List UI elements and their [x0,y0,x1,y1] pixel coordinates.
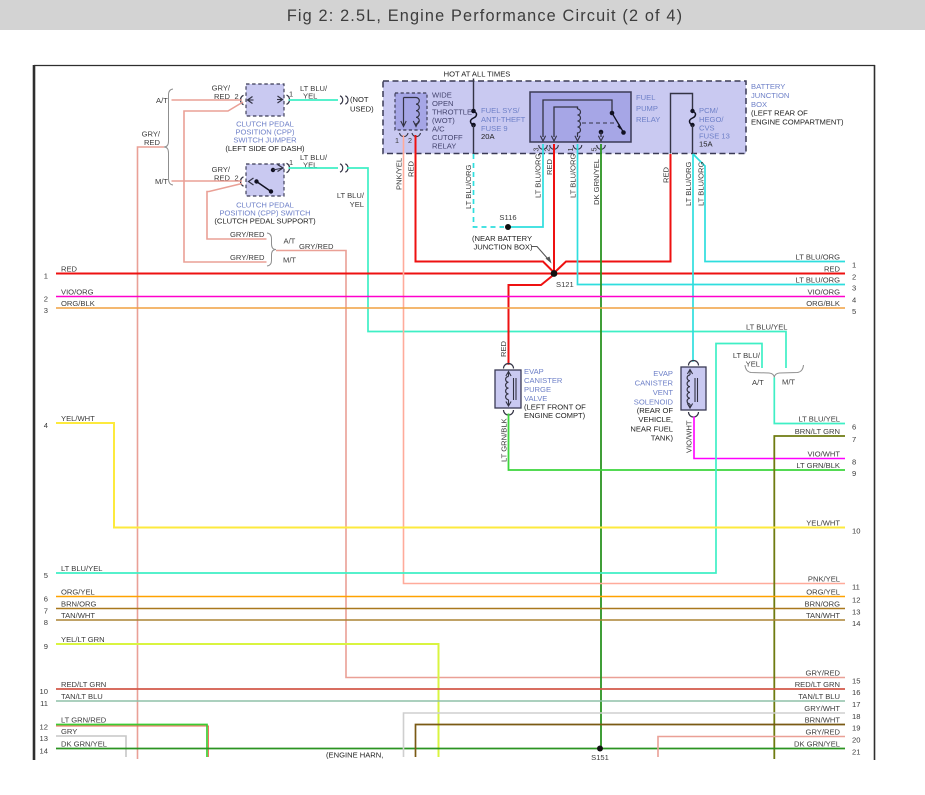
label fuse 13 [699,106,730,149]
svg-text:LT BLU/YEL: LT BLU/YEL [746,323,788,332]
svg-text:1: 1 [289,90,293,99]
wire BRN/LT GRN [774,436,845,759]
wire GRY/RED to right 15 [276,251,845,678]
solenoid EVAP canister purge valve [495,364,521,415]
wire RED to purge valve [509,275,555,365]
svg-text:NEAR FUEL: NEAR FUEL [630,425,673,434]
label right terminal 8 VIO/WHT [808,450,857,467]
svg-text:S121: S121 [556,280,574,289]
label left terminal 6 ORG/YEL [44,588,95,604]
label GRY/RED at jumper pin 2 [212,84,231,102]
svg-text:CANISTER: CANISTER [635,379,674,388]
wire TAN/LT BLU [56,700,845,702]
svg-text:RELAY: RELAY [636,115,660,124]
label right terminal 19 BRN/WHT [805,716,861,733]
label WOT relay [432,91,472,151]
svg-text:GRY/RED: GRY/RED [230,230,265,239]
wire RED main [56,273,845,275]
svg-text:15: 15 [852,676,860,685]
fuse F9 FUEL SYS/ANTI-THEFT FUSE 9 20A [471,109,477,154]
label left terminal 1 RED [44,265,78,281]
frame right border [874,65,876,760]
fuse F13 PCM/HEGO/CVS FUSE 13 15A [690,109,696,154]
svg-text:8: 8 [44,618,48,627]
svg-text:S116: S116 [499,213,516,222]
svg-text:LT GRN/RED: LT GRN/RED [61,716,107,725]
label (NEAR BATTERY JUNCTION BOX) with callout [472,234,552,264]
label right terminal 5 ORG/BLK [806,299,856,316]
svg-text:1: 1 [44,272,48,281]
wire VIO/WHT [694,417,845,459]
svg-text:11: 11 [40,699,48,708]
svg-text:18: 18 [852,712,860,721]
svg-text:A/T: A/T [156,96,168,105]
svg-text:11: 11 [852,582,860,591]
wire GRY/RED main feed [138,147,165,759]
svg-text:HOT AT ALL TIMES: HOT AT ALL TIMES [444,70,511,79]
svg-text:BRN/LT GRN: BRN/LT GRN [795,427,840,436]
wire GRY/RED A/T [172,99,243,101]
wire GRY/WHT [404,713,846,757]
svg-text:20A: 20A [481,132,495,141]
label left terminal 14 DK GRN/YEL [40,740,107,756]
svg-text:6: 6 [44,595,48,604]
svg-text:15A: 15A [699,140,713,149]
brace A/T M/T merge [745,365,804,378]
wire RED from WOT pin 2 [416,135,555,273]
label right terminal 11 PNK/YEL [808,575,860,592]
label CPP switch jumper [225,120,305,154]
svg-text:7: 7 [852,435,856,444]
svg-text:4: 4 [44,421,48,430]
wire RED/LT GRN [56,688,845,690]
svg-text:LT BLU/ORG: LT BLU/ORG [569,153,578,198]
svg-text:RED: RED [824,265,841,274]
svg-text:Fig 2: 2.5L, Engine Performanc: Fig 2: 2.5L, Engine Performance Circuit … [287,7,683,25]
pin 1 connector WOT [400,133,409,137]
wire LT BLU/ORG to right 1 [693,154,845,262]
label right terminal 14 TAN/WHT [806,611,860,628]
connector break (not used) [340,96,348,104]
svg-text:13: 13 [852,607,860,616]
svg-text:9: 9 [44,642,48,651]
connector CPP switch jumper box [246,84,284,116]
wire LT BLU/YEL left 5 [56,344,762,574]
svg-text:M/T: M/T [155,177,168,186]
svg-text:FUEL SYS/: FUEL SYS/ [481,106,520,115]
relay fuel pump relay box [530,92,631,142]
label right terminal 6 LT BLU/YEL [798,415,856,432]
svg-text:TAN/LT BLU: TAN/LT BLU [798,692,840,701]
node S121 [551,270,558,277]
label left terminal 8 TAN/WHT [44,611,96,627]
svg-text:GRY/RED: GRY/RED [230,253,265,262]
label right terminal 9 LT GRN/BLK [796,461,856,478]
label right terminal 10 YEL/WHT [806,519,860,536]
svg-text:9: 9 [852,469,856,478]
label right terminal 20 GRY/RED [806,728,861,745]
label right terminal 13 BRN/ORG [805,600,861,617]
label left terminal 10 RED/LT GRN [40,680,107,696]
svg-text:PNK/YEL: PNK/YEL [395,158,404,190]
svg-text:EVAP: EVAP [524,367,544,376]
svg-text:LT BLU/ORG: LT BLU/ORG [534,153,543,198]
svg-text:VENT: VENT [653,388,674,397]
relay pin arrows [540,136,603,141]
wire BRN/WHT [416,725,846,758]
svg-text:M/T: M/T [283,256,296,265]
svg-text:YEL: YEL [746,360,760,369]
svg-text:PURGE: PURGE [524,385,551,394]
svg-text:TAN/WHT: TAN/WHT [61,611,95,620]
label right terminal 15 GRY/RED [806,669,861,686]
svg-text:ENGINE COMPARTMENT): ENGINE COMPARTMENT) [751,118,844,127]
svg-text:3: 3 [44,306,48,315]
svg-text:LT BLU/ORG: LT BLU/ORG [796,276,841,285]
pin 2 connector CPP switch [241,177,244,186]
svg-text:13: 13 [40,734,48,743]
label right terminal 18 GRY/WHT [804,704,860,721]
pin 2 connector WOT [412,133,421,137]
label right terminal 21 DK GRN/YEL [794,740,860,757]
label fuse 9 [481,106,526,141]
svg-text:5: 5 [852,307,856,316]
svg-text:16: 16 [852,688,860,697]
svg-text:LT GRN/BLK: LT GRN/BLK [796,461,840,470]
svg-text:RED/LT GRN: RED/LT GRN [61,680,106,689]
svg-text:19: 19 [852,723,860,732]
wire DK GRN/YEL pin 5 [600,144,602,749]
svg-text:17: 17 [852,700,860,709]
label right terminal 4 VIO/ORG [808,288,857,305]
wire YEL/WHT [56,423,845,528]
svg-text:VIO/WHT: VIO/WHT [685,420,694,453]
svg-text:BRN/ORG: BRN/ORG [61,600,97,609]
svg-text:6: 6 [852,422,856,431]
svg-text:RED: RED [545,158,554,175]
wire LT BLU/YEL jumper output [289,99,339,101]
wire RED from relay pin 2 [553,144,555,274]
svg-text:BRN/WHT: BRN/WHT [805,716,841,725]
svg-text:1: 1 [852,260,856,269]
svg-text:BRN/ORG: BRN/ORG [805,600,841,609]
pin 1 connector jumper [287,95,290,104]
label right terminal 1 LT BLU/ORG [796,253,857,270]
svg-text:EVAP: EVAP [653,369,673,378]
svg-text:LT BLU/YEL: LT BLU/YEL [798,415,840,424]
solenoid EVAP canister vent solenoid [681,361,706,418]
label LT BLU/YEL at jumper pin 1 [300,84,328,101]
label (NOT USED) [350,95,374,114]
wire GRY/RED jumper down [184,102,267,262]
svg-text:VEHICLE,: VEHICLE, [638,415,673,424]
label battery junction box [751,82,844,127]
label right terminal 2 RED [824,265,856,282]
wire GRY/RED right 20 [658,737,845,758]
label left terminal 12 LT GRN/RED [40,716,107,732]
svg-text:TAN/WHT: TAN/WHT [806,611,840,620]
label GRY/RED at CPP switch pin 2 [212,165,231,183]
frame left border [33,65,36,760]
brace A/T M/T left [164,89,173,185]
svg-text:GRY: GRY [61,727,77,736]
svg-text:ANTI-THEFT: ANTI-THEFT [481,115,526,124]
svg-text:GRY/RED: GRY/RED [806,669,841,678]
label left terminal 5 LT BLU/YEL [44,564,103,580]
svg-text:7: 7 [44,607,48,616]
svg-text:3: 3 [852,283,856,292]
label right terminal 16 RED/LT GRN [795,680,861,697]
svg-text:14: 14 [852,619,860,628]
relay pin connectors [539,145,606,149]
svg-text:CANISTER: CANISTER [524,376,563,385]
svg-text:3: 3 [532,148,541,152]
wire TAN/WHT [56,619,845,621]
wire LT BLU/YEL CPP switch output [289,167,339,169]
wire LT GRN/RED [56,725,207,758]
svg-text:GRY/RED: GRY/RED [806,728,841,737]
wire ORG/BLK [56,307,845,309]
wire LT GRN/RED stripe [56,726,209,757]
relay pin numbers 3 2 1 5 [532,148,599,152]
svg-text:RED: RED [499,340,508,357]
svg-text:PUMP: PUMP [636,104,658,113]
wire BRN/ORG [56,608,845,610]
svg-text:M/T: M/T [782,378,795,387]
svg-text:TANK): TANK) [651,434,674,443]
svg-text:DK GRN/YEL: DK GRN/YEL [794,740,840,749]
svg-text:JUNCTION: JUNCTION [751,91,789,100]
label left terminal 3 ORG/BLK [44,299,95,315]
svg-text:RED: RED [144,138,161,147]
svg-text:(NOT: (NOT [350,95,369,104]
wire GRY/RED M/T [172,180,243,182]
svg-text:A/T: A/T [284,237,296,246]
label right terminal 3 LT BLU/ORG [796,276,857,293]
svg-text:LT GRN/BLK: LT GRN/BLK [500,418,509,462]
label left terminal 9 YEL/LT GRN [44,635,105,651]
svg-text:DK GRN/YEL: DK GRN/YEL [592,159,601,205]
wire PNK/YEL [404,135,846,584]
wire LT BLU/ORG pin 1 [578,144,846,285]
svg-text:(CLUTCH PEDAL SUPPORT): (CLUTCH PEDAL SUPPORT) [214,217,316,226]
svg-text:8: 8 [852,457,856,466]
wire RED from fuse 13 [555,154,671,273]
label LT BLU/YEL A/T branch [733,351,761,369]
svg-text:GRY/RED: GRY/RED [299,242,334,251]
svg-text:21: 21 [852,747,860,756]
svg-text:GRY/WHT: GRY/WHT [804,704,840,713]
svg-text:TAN/LT BLU: TAN/LT BLU [61,692,103,701]
battery junction box [383,81,746,154]
svg-text:1: 1 [395,136,399,145]
svg-text:5: 5 [44,571,48,580]
svg-text:2: 2 [408,136,412,145]
svg-text:2: 2 [852,272,856,281]
node S151 [597,746,603,752]
label fuel pump relay [636,93,660,124]
relay WOT A/C cutoff relay (inner box) [395,93,427,130]
svg-text:ENGINE COMPT): ENGINE COMPT) [524,411,586,420]
wire ORG/YEL [56,596,845,598]
wire DK GRN/YEL bottom [56,748,845,750]
svg-text:RED: RED [407,160,416,177]
wire LT BLU/ORG pin 3 [508,144,543,227]
brace GRY/RED merge [267,233,276,266]
svg-text:(REAR OF: (REAR OF [637,406,674,415]
svg-text:(ENGINE HARN,: (ENGINE HARN, [326,751,383,760]
svg-text:YEL: YEL [350,200,364,209]
svg-text:DK GRN/YEL: DK GRN/YEL [61,740,107,749]
svg-text:LT BLU/YEL: LT BLU/YEL [61,564,103,573]
svg-text:(LEFT REAR OF: (LEFT REAR OF [751,109,808,118]
svg-text:RELAY: RELAY [432,142,456,151]
wire LT BLU/ORG to vent solenoid [692,154,694,362]
label left terminal 13 GRY [40,727,78,743]
svg-text:12: 12 [40,723,48,732]
svg-text:LT BLU/: LT BLU/ [337,191,365,200]
wire LT BLU/YEL down-over [347,168,786,368]
svg-text:5: 5 [590,148,599,152]
switch CPP switch box [246,164,284,196]
wire LT BLU/YEL to right 6 [774,378,845,424]
svg-text:BATTERY: BATTERY [751,82,785,91]
wire VIO/ORG [56,296,845,298]
svg-text:VIO/ORG: VIO/ORG [61,288,94,297]
svg-text:RED: RED [61,265,78,274]
frame top border [34,65,875,67]
wire hot feed [473,79,475,111]
svg-text:14: 14 [40,747,48,756]
svg-text:S151: S151 [591,753,609,762]
label right terminal 12 ORG/YEL [806,588,860,605]
svg-text:FUEL: FUEL [636,93,655,102]
connector break in LT BLU/YEL [340,164,348,172]
svg-text:LT BLU/ORG: LT BLU/ORG [697,161,706,206]
label GRY/RED feed [142,130,161,148]
wire to fuse 13 [671,94,693,154]
svg-text:LT BLU/ORG: LT BLU/ORG [464,164,473,209]
title bar [0,0,925,30]
label EVAP canister vent solenoid [630,369,673,443]
label LT BLU/YEL vertical run [337,191,365,209]
svg-text:PNK/YEL: PNK/YEL [808,575,840,584]
wire LT GRN/BLK [509,414,846,471]
wire YEL/LT GRN [56,644,439,757]
wire GRY [56,736,126,757]
svg-text:PCM/: PCM/ [699,106,719,115]
svg-text:YEL/LT GRN: YEL/LT GRN [61,635,105,644]
svg-text:1: 1 [289,158,293,167]
pin 2 connector jumper [241,95,244,104]
label right terminal 7 BRN/LT GRN [795,427,857,444]
svg-text:10: 10 [852,526,860,535]
svg-text:ORG/BLK: ORG/BLK [61,299,95,308]
svg-text:(LEFT SIDE OF DASH): (LEFT SIDE OF DASH) [225,144,305,153]
pin 1 connector CPP switch [287,163,290,172]
label right terminal 17 TAN/LT BLU [798,692,860,709]
label left terminal 4 YEL/WHT [44,414,95,430]
wire GRY/RED switch down [207,184,267,240]
wire LT BLU/ORG dashed [474,154,505,227]
svg-text:ORG/YEL: ORG/YEL [61,588,95,597]
label LT BLU/YEL at CPP switch pin 1 [300,153,328,170]
svg-text:2: 2 [44,295,48,304]
node S116 [505,224,511,230]
svg-text:A/T: A/T [752,378,764,387]
svg-text:LT BLU/ORG: LT BLU/ORG [796,253,841,262]
svg-text:1: 1 [566,148,575,152]
svg-text:12: 12 [852,595,860,604]
label left terminal 11 TAN/LT BLU [40,692,103,708]
label left terminal 2 VIO/ORG [44,288,94,304]
svg-text:ORG/BLK: ORG/BLK [806,299,840,308]
svg-text:VIO/WHT: VIO/WHT [808,450,841,459]
svg-text:20: 20 [852,735,860,744]
svg-text:10: 10 [40,687,48,696]
svg-text:JUNCTION BOX): JUNCTION BOX) [473,243,533,252]
svg-text:VIO/ORG: VIO/ORG [808,288,841,297]
svg-text:RED: RED [662,166,671,183]
svg-text:USED): USED) [350,105,374,114]
svg-text:ORG/YEL: ORG/YEL [806,588,840,597]
label left terminal 7 BRN/ORG [44,600,97,616]
svg-text:YEL/WHT: YEL/WHT [61,414,95,423]
svg-text:RED/LT GRN: RED/LT GRN [795,680,840,689]
label EVAP canister purge valve [524,367,586,420]
svg-text:LT BLU/ORG: LT BLU/ORG [684,161,693,206]
svg-text:YEL/WHT: YEL/WHT [806,519,840,528]
svg-text:4: 4 [852,295,856,304]
label CPP switch [214,201,316,226]
